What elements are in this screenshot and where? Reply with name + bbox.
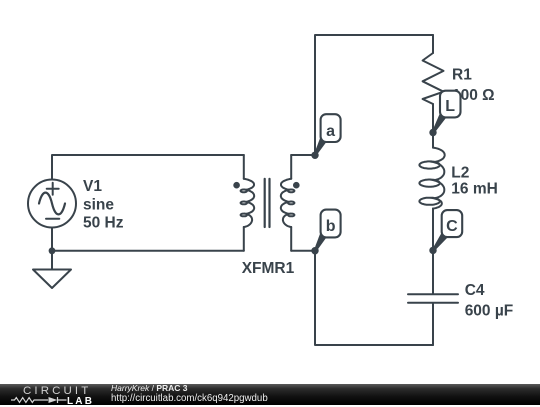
svg-text:L: L	[445, 98, 455, 115]
svg-text:L2: L2	[451, 164, 469, 181]
svg-text:16 mH: 16 mH	[451, 181, 498, 198]
svg-text:C4: C4	[465, 282, 485, 299]
svg-text:sine: sine	[83, 197, 114, 214]
svg-text:b: b	[326, 218, 336, 235]
svg-text:C: C	[446, 218, 458, 235]
svg-text:a: a	[326, 123, 335, 140]
svg-text:50 Hz: 50 Hz	[83, 215, 124, 232]
svg-text:V1: V1	[83, 178, 102, 195]
svg-text:XFMR1: XFMR1	[242, 260, 295, 277]
svg-text:R1: R1	[452, 67, 472, 84]
svg-text:600 µF: 600 µF	[465, 302, 514, 319]
